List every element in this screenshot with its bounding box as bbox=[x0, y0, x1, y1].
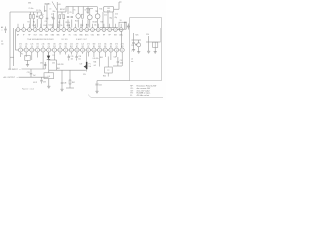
svg-text:100n: 100n bbox=[120, 62, 124, 64]
svg-text:R11: R11 bbox=[98, 46, 101, 48]
svg-text:TR1: TR1 bbox=[86, 12, 89, 14]
svg-text:C7a: C7a bbox=[41, 14, 44, 16]
svg-text:R3: R3 bbox=[104, 46, 106, 48]
svg-text:MIX: MIX bbox=[114, 34, 117, 36]
svg-text:C7: C7 bbox=[51, 14, 53, 16]
svg-text:x: x bbox=[131, 51, 132, 53]
svg-text:R.F. INPUT: R.F. INPUT bbox=[8, 69, 18, 71]
svg-text:R10: R10 bbox=[75, 21, 78, 23]
svg-text:R18: R18 bbox=[101, 22, 104, 24]
svg-text:C36: C36 bbox=[78, 56, 81, 58]
svg-text:C42: C42 bbox=[120, 60, 123, 62]
svg-text:11: 11 bbox=[74, 29, 76, 31]
svg-text:T1: T1 bbox=[74, 10, 76, 12]
svg-text:C5 10n: C5 10n bbox=[29, 8, 34, 10]
svg-text:10k: 10k bbox=[94, 25, 97, 27]
svg-text:R7: R7 bbox=[25, 46, 27, 48]
svg-text:AF: AF bbox=[63, 33, 65, 36]
svg-text:C33: C33 bbox=[43, 82, 46, 84]
svg-text:IF: IF bbox=[23, 34, 24, 36]
svg-text:13: 13 bbox=[86, 29, 88, 31]
svg-text:C40 47u: C40 47u bbox=[93, 58, 99, 60]
svg-text:2.2k: 2.2k bbox=[30, 44, 33, 46]
svg-text:8: 8 bbox=[58, 29, 59, 31]
svg-text:18: 18 bbox=[116, 50, 118, 52]
svg-text:10n: 10n bbox=[78, 58, 81, 60]
svg-text:19: 19 bbox=[121, 50, 123, 52]
svg-text:OUT: OUT bbox=[34, 34, 37, 36]
svg-text:68p: 68p bbox=[110, 18, 113, 20]
svg-text:5: 5 bbox=[40, 29, 41, 31]
svg-text:11: 11 bbox=[76, 50, 78, 52]
svg-text:C16: C16 bbox=[115, 14, 118, 16]
svg-text:LS: LS bbox=[48, 76, 51, 78]
svg-text:10: 10 bbox=[70, 50, 72, 52]
svg-text:470: 470 bbox=[59, 44, 62, 46]
svg-text:R1: R1 bbox=[28, 22, 30, 24]
svg-text:4.7k: 4.7k bbox=[121, 44, 124, 46]
svg-text:8: 8 bbox=[60, 50, 61, 52]
svg-text:IN: IN bbox=[69, 34, 71, 36]
svg-text:C4: C4 bbox=[31, 46, 33, 48]
svg-text:C6: C6 bbox=[58, 22, 60, 24]
svg-text:9: 9 bbox=[65, 50, 66, 52]
svg-text:2.2k: 2.2k bbox=[42, 44, 45, 46]
svg-text:2.2k: 2.2k bbox=[70, 44, 73, 46]
svg-text:C9: C9 bbox=[116, 46, 118, 48]
svg-text:C24: C24 bbox=[146, 34, 149, 36]
svg-text:C30: C30 bbox=[40, 63, 43, 65]
svg-text:10k: 10k bbox=[104, 44, 107, 46]
svg-text:R6a: R6a bbox=[53, 11, 56, 13]
svg-text:4: 4 bbox=[35, 29, 36, 31]
svg-text:osc: osc bbox=[131, 61, 134, 63]
svg-text:C1 22n: C1 22n bbox=[36, 10, 41, 12]
svg-text:TR2: TR2 bbox=[95, 11, 98, 13]
svg-text:33k: 33k bbox=[64, 44, 67, 46]
svg-text:10: 10 bbox=[69, 29, 71, 31]
svg-text:Figure 2 : circuit: Figure 2 : circuit bbox=[22, 88, 35, 91]
svg-text:R40 220: R40 220 bbox=[58, 64, 64, 66]
svg-text:o: o bbox=[17, 77, 18, 79]
svg-text:S1: S1 bbox=[120, 20, 122, 22]
svg-text:C9: C9 bbox=[48, 46, 50, 48]
svg-text:C4: C4 bbox=[42, 46, 44, 48]
svg-text:12: 12 bbox=[82, 50, 84, 52]
svg-text:C23: C23 bbox=[131, 45, 134, 47]
svg-text:7: 7 bbox=[52, 29, 53, 31]
svg-text:C9: C9 bbox=[70, 12, 72, 14]
svg-text:R6: R6 bbox=[45, 11, 47, 13]
svg-text:C38: C38 bbox=[64, 83, 67, 85]
svg-text:BC548: BC548 bbox=[93, 22, 98, 24]
svg-text:R3: R3 bbox=[82, 46, 84, 48]
svg-text:7: 7 bbox=[54, 50, 55, 52]
svg-text:RF: RF bbox=[103, 34, 105, 36]
svg-text:10k: 10k bbox=[89, 66, 92, 68]
svg-text:OSC MIX: OSC MIX bbox=[61, 39, 69, 41]
svg-text:33k: 33k bbox=[110, 44, 113, 46]
svg-text:C2: C2 bbox=[87, 46, 89, 48]
svg-text:4u7: 4u7 bbox=[94, 65, 97, 67]
svg-text:16: 16 bbox=[104, 50, 106, 52]
svg-text:470: 470 bbox=[76, 44, 79, 46]
svg-text:R42: R42 bbox=[72, 82, 75, 84]
svg-text:C3: C3 bbox=[45, 21, 47, 23]
svg-text:R9 1k: R9 1k bbox=[66, 22, 70, 24]
svg-text:1: 1 bbox=[20, 50, 21, 52]
svg-text:6: 6 bbox=[48, 50, 49, 52]
svg-text:R2: R2 bbox=[33, 22, 35, 24]
svg-text:C2: C2 bbox=[1, 41, 3, 43]
svg-text:IF:: IF: bbox=[130, 95, 133, 97]
svg-text:6: 6 bbox=[46, 29, 47, 31]
svg-text:VOL: VOL bbox=[83, 74, 86, 76]
svg-text:R11: R11 bbox=[70, 46, 73, 48]
svg-text:C10: C10 bbox=[60, 25, 63, 27]
svg-text:17: 17 bbox=[110, 50, 112, 52]
svg-text:C37: C37 bbox=[80, 64, 83, 66]
svg-text:15: 15 bbox=[99, 50, 101, 52]
svg-text:L2: L2 bbox=[39, 18, 41, 20]
svg-text:680: 680 bbox=[93, 44, 96, 46]
svg-text:D1: D1 bbox=[53, 55, 55, 57]
svg-text:C41: C41 bbox=[114, 57, 117, 59]
svg-text:19: 19 bbox=[120, 29, 122, 31]
svg-text:R25: R25 bbox=[136, 35, 139, 37]
svg-text:R16: R16 bbox=[100, 9, 103, 11]
svg-text:GND: GND bbox=[79, 34, 83, 36]
svg-text:3: 3 bbox=[31, 50, 32, 52]
svg-text:GND: GND bbox=[51, 34, 55, 36]
svg-text:SW1: SW1 bbox=[28, 3, 31, 5]
svg-text:4.7k: 4.7k bbox=[87, 44, 90, 46]
svg-text:AF: AF bbox=[17, 33, 19, 36]
svg-text:10n: 10n bbox=[1, 43, 4, 45]
svg-text:C34: C34 bbox=[52, 63, 55, 65]
svg-text:3: 3 bbox=[29, 29, 30, 31]
svg-text:RF: RF bbox=[109, 34, 111, 36]
svg-text:CF1: CF1 bbox=[107, 8, 110, 10]
svg-text:R12: R12 bbox=[81, 25, 84, 27]
svg-text:10n: 10n bbox=[71, 58, 74, 60]
svg-text:2: 2 bbox=[23, 29, 24, 31]
svg-text:C45: C45 bbox=[99, 85, 102, 87]
svg-text:o: o bbox=[2, 30, 3, 32]
svg-text:MIX: MIX bbox=[45, 34, 48, 36]
svg-text:150: 150 bbox=[36, 44, 39, 46]
svg-text:C12: C12 bbox=[53, 46, 56, 48]
svg-text:2n2: 2n2 bbox=[33, 75, 36, 77]
svg-text:1.2k: 1.2k bbox=[25, 44, 28, 46]
svg-text:MIX: MIX bbox=[57, 34, 60, 36]
svg-text:P1: P1 bbox=[89, 64, 91, 66]
svg-text:1: 1 bbox=[18, 29, 19, 31]
svg-text:470: 470 bbox=[115, 44, 118, 46]
svg-text:R7: R7 bbox=[76, 46, 78, 48]
svg-text:MIX: MIX bbox=[97, 34, 100, 36]
svg-text:T2: T2 bbox=[107, 70, 109, 72]
svg-text:33k: 33k bbox=[48, 44, 51, 46]
svg-text:R41: R41 bbox=[57, 68, 60, 70]
svg-text:R44: R44 bbox=[94, 62, 97, 64]
svg-text:5: 5 bbox=[43, 50, 44, 52]
svg-text:18: 18 bbox=[115, 29, 117, 31]
svg-text:C31: C31 bbox=[27, 72, 30, 74]
svg-text:R45: R45 bbox=[100, 57, 103, 59]
svg-text:9: 9 bbox=[63, 29, 64, 31]
svg-text:4: 4 bbox=[37, 50, 38, 52]
svg-text:R7: R7 bbox=[65, 46, 67, 48]
svg-text:R8 2k2: R8 2k2 bbox=[60, 9, 65, 11]
svg-text:L5: L5 bbox=[131, 59, 133, 61]
svg-text:C9: C9 bbox=[59, 46, 61, 48]
svg-text:IF AMP / DET: IF AMP / DET bbox=[76, 38, 88, 41]
svg-text:C2: C2 bbox=[20, 46, 22, 48]
svg-text:AGC: AGC bbox=[85, 33, 89, 36]
svg-text:TDA 1083 AM/FM RECEIVER: TDA 1083 AM/FM RECEIVER bbox=[27, 38, 54, 41]
svg-text:13: 13 bbox=[87, 50, 89, 52]
svg-text:12: 12 bbox=[80, 29, 82, 31]
svg-text:R14: R14 bbox=[86, 25, 89, 27]
svg-text:A.F. OUTPUT: A.F. OUTPUT bbox=[4, 76, 16, 79]
svg-text:4.7k: 4.7k bbox=[98, 44, 101, 46]
svg-text:L3: L3 bbox=[50, 9, 52, 11]
svg-text:150: 150 bbox=[53, 44, 56, 46]
svg-text:RF: RF bbox=[28, 34, 30, 36]
svg-text:16: 16 bbox=[103, 29, 105, 31]
svg-text:R11: R11 bbox=[121, 46, 124, 48]
svg-text:C15: C15 bbox=[104, 15, 107, 17]
svg-text:14: 14 bbox=[93, 50, 95, 52]
svg-text:R7a: R7a bbox=[44, 25, 47, 27]
svg-text:455k: 455k bbox=[107, 10, 111, 12]
svg-text:C8 4n7: C8 4n7 bbox=[85, 10, 90, 12]
svg-text:100p: 100p bbox=[49, 25, 53, 27]
svg-text:C4: C4 bbox=[36, 46, 38, 48]
svg-text:17: 17 bbox=[109, 29, 111, 31]
svg-text:F1: F1 bbox=[21, 54, 23, 56]
svg-text:470: 470 bbox=[19, 44, 22, 46]
svg-text:R3: R3 bbox=[110, 46, 112, 48]
svg-text:0.5 W: 0.5 W bbox=[33, 82, 38, 84]
svg-text:455 kHz coil set: 455 kHz coil set bbox=[137, 94, 150, 97]
svg-text:R5: R5 bbox=[93, 46, 95, 48]
svg-text:OSC: OSC bbox=[39, 34, 43, 36]
svg-text:15: 15 bbox=[97, 29, 99, 31]
svg-text:2: 2 bbox=[26, 50, 27, 52]
svg-text:o: o bbox=[20, 69, 21, 71]
svg-text:C6a: C6a bbox=[33, 25, 36, 27]
svg-text:+9V: +9V bbox=[58, 4, 62, 6]
svg-text:AE: AE bbox=[1, 26, 3, 29]
svg-text:C35: C35 bbox=[71, 56, 74, 58]
svg-text:47p: 47p bbox=[115, 17, 118, 19]
svg-text:C21: C21 bbox=[124, 22, 127, 24]
svg-text:39p: 39p bbox=[51, 17, 54, 19]
svg-text:OSC: OSC bbox=[74, 34, 78, 36]
svg-text:14: 14 bbox=[92, 29, 94, 31]
svg-text:1.2k: 1.2k bbox=[81, 44, 84, 46]
svg-text:OSC: OSC bbox=[91, 34, 95, 36]
svg-text:R46: R46 bbox=[103, 75, 106, 77]
